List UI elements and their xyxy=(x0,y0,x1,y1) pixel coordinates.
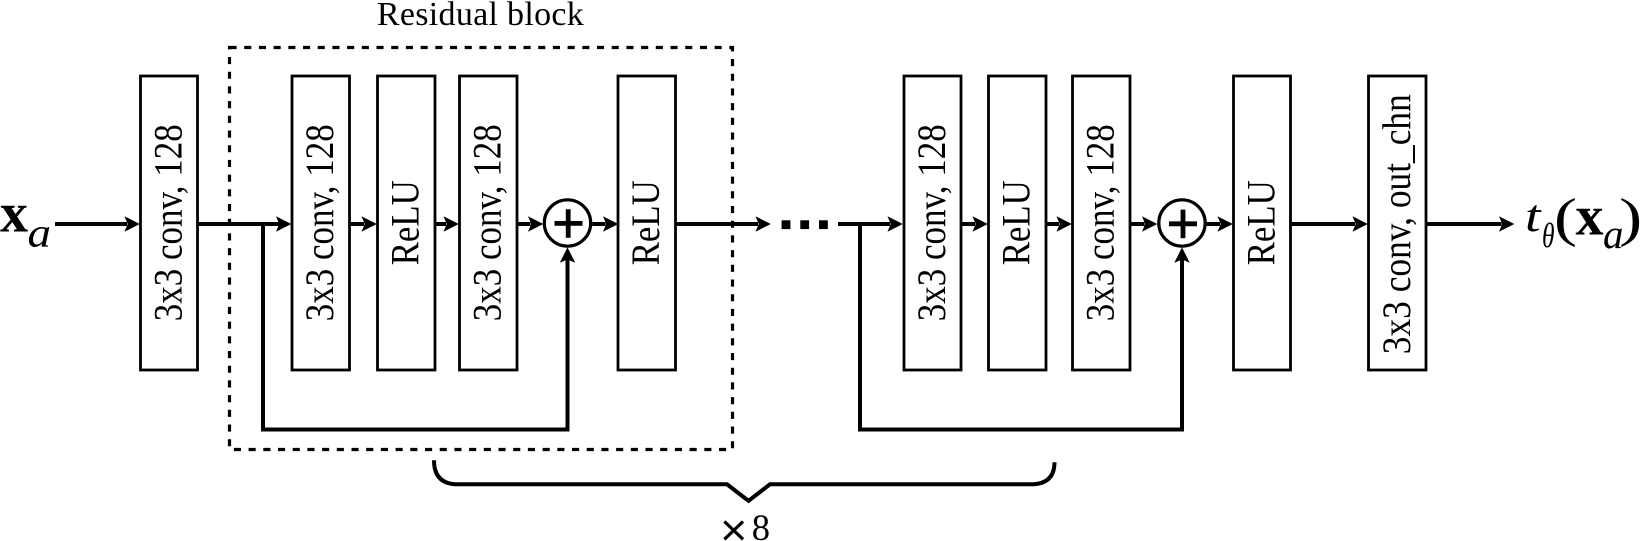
arrow: conv3 to adder1 xyxy=(517,216,543,231)
svg-text:x: x xyxy=(0,183,28,245)
arrow: adder1 to relu2 xyxy=(592,216,618,231)
arrow: conv2 to relu1 xyxy=(350,216,377,231)
conv box 1: 3x3 conv, 128 xyxy=(141,76,198,370)
svg-text:t: t xyxy=(1525,190,1542,241)
conv box 2: 3x3 conv, 128 xyxy=(292,76,350,370)
svg-text:3x3 conv, 128: 3x3 conv, 128 xyxy=(909,124,954,321)
arrow: relu3 to conv5 xyxy=(1046,216,1072,231)
arrow: input to conv1 xyxy=(55,216,140,231)
conv box 4: 3x3 conv, 128 xyxy=(904,76,961,370)
adder 1: circle plus xyxy=(544,200,590,246)
svg-text:x: x xyxy=(1576,186,1604,248)
svg-text:ReLU: ReLU xyxy=(994,180,1039,265)
conv box 5: 3x3 conv, 128 xyxy=(1073,76,1131,370)
svg-text:8: 8 xyxy=(752,507,770,541)
multiplier label x 8 xyxy=(724,507,770,541)
ellipsis dots xyxy=(782,220,828,229)
arrow: conv out to output label xyxy=(1426,216,1514,231)
skip connection 1: branch down, right, up into adder xyxy=(263,222,575,430)
svg-text:ReLU: ReLU xyxy=(383,180,428,265)
arrow: relu4 to conv out xyxy=(1291,216,1368,231)
svg-text:Residual block: Residual block xyxy=(377,0,584,33)
output label t_theta(x_a) xyxy=(1525,186,1642,258)
svg-text:θ: θ xyxy=(1542,216,1555,255)
arrow: adder2 to relu4 xyxy=(1207,216,1233,231)
svg-text:a: a xyxy=(28,210,52,256)
svg-text:ReLU: ReLU xyxy=(623,180,668,265)
svg-text:(: ( xyxy=(1554,188,1577,248)
svg-text:3x3 conv, out_chn: 3x3 conv, out_chn xyxy=(1374,94,1419,354)
dashed residual block border xyxy=(230,48,733,450)
arrow: conv5 to adder2 xyxy=(1130,216,1157,231)
wire: dots to conv4 with branch node xyxy=(838,216,903,231)
relu box 4: ReLU xyxy=(1234,76,1291,370)
brace under residual blocks xyxy=(434,460,1055,501)
svg-text:3x3 conv, 128: 3x3 conv, 128 xyxy=(297,124,342,321)
arrow: conv4 to relu3 xyxy=(961,216,988,231)
svg-text:): ) xyxy=(1619,188,1642,248)
relu box 1: ReLU xyxy=(378,76,436,370)
skip connection 2 xyxy=(860,222,1190,430)
input label x_a xyxy=(0,183,51,256)
wire: conv1 to conv2 with branch node xyxy=(198,216,292,231)
adder 2: circle plus xyxy=(1159,200,1205,246)
svg-text:3x3 conv, 128: 3x3 conv, 128 xyxy=(1078,124,1123,321)
conv box 6: 3x3 conv, out_chn xyxy=(1369,76,1427,370)
arrow: relu1 to conv3 xyxy=(435,216,459,231)
conv box 3: 3x3 conv, 128 xyxy=(460,76,518,370)
relu box 3: ReLU xyxy=(989,76,1047,370)
svg-text:ReLU: ReLU xyxy=(1239,180,1284,265)
relu box 2: ReLU xyxy=(618,76,676,370)
arrow: relu2 to dots xyxy=(676,216,771,231)
svg-text:3x3 conv, 128: 3x3 conv, 128 xyxy=(465,124,510,321)
svg-text:3x3 conv, 128: 3x3 conv, 128 xyxy=(145,124,190,321)
